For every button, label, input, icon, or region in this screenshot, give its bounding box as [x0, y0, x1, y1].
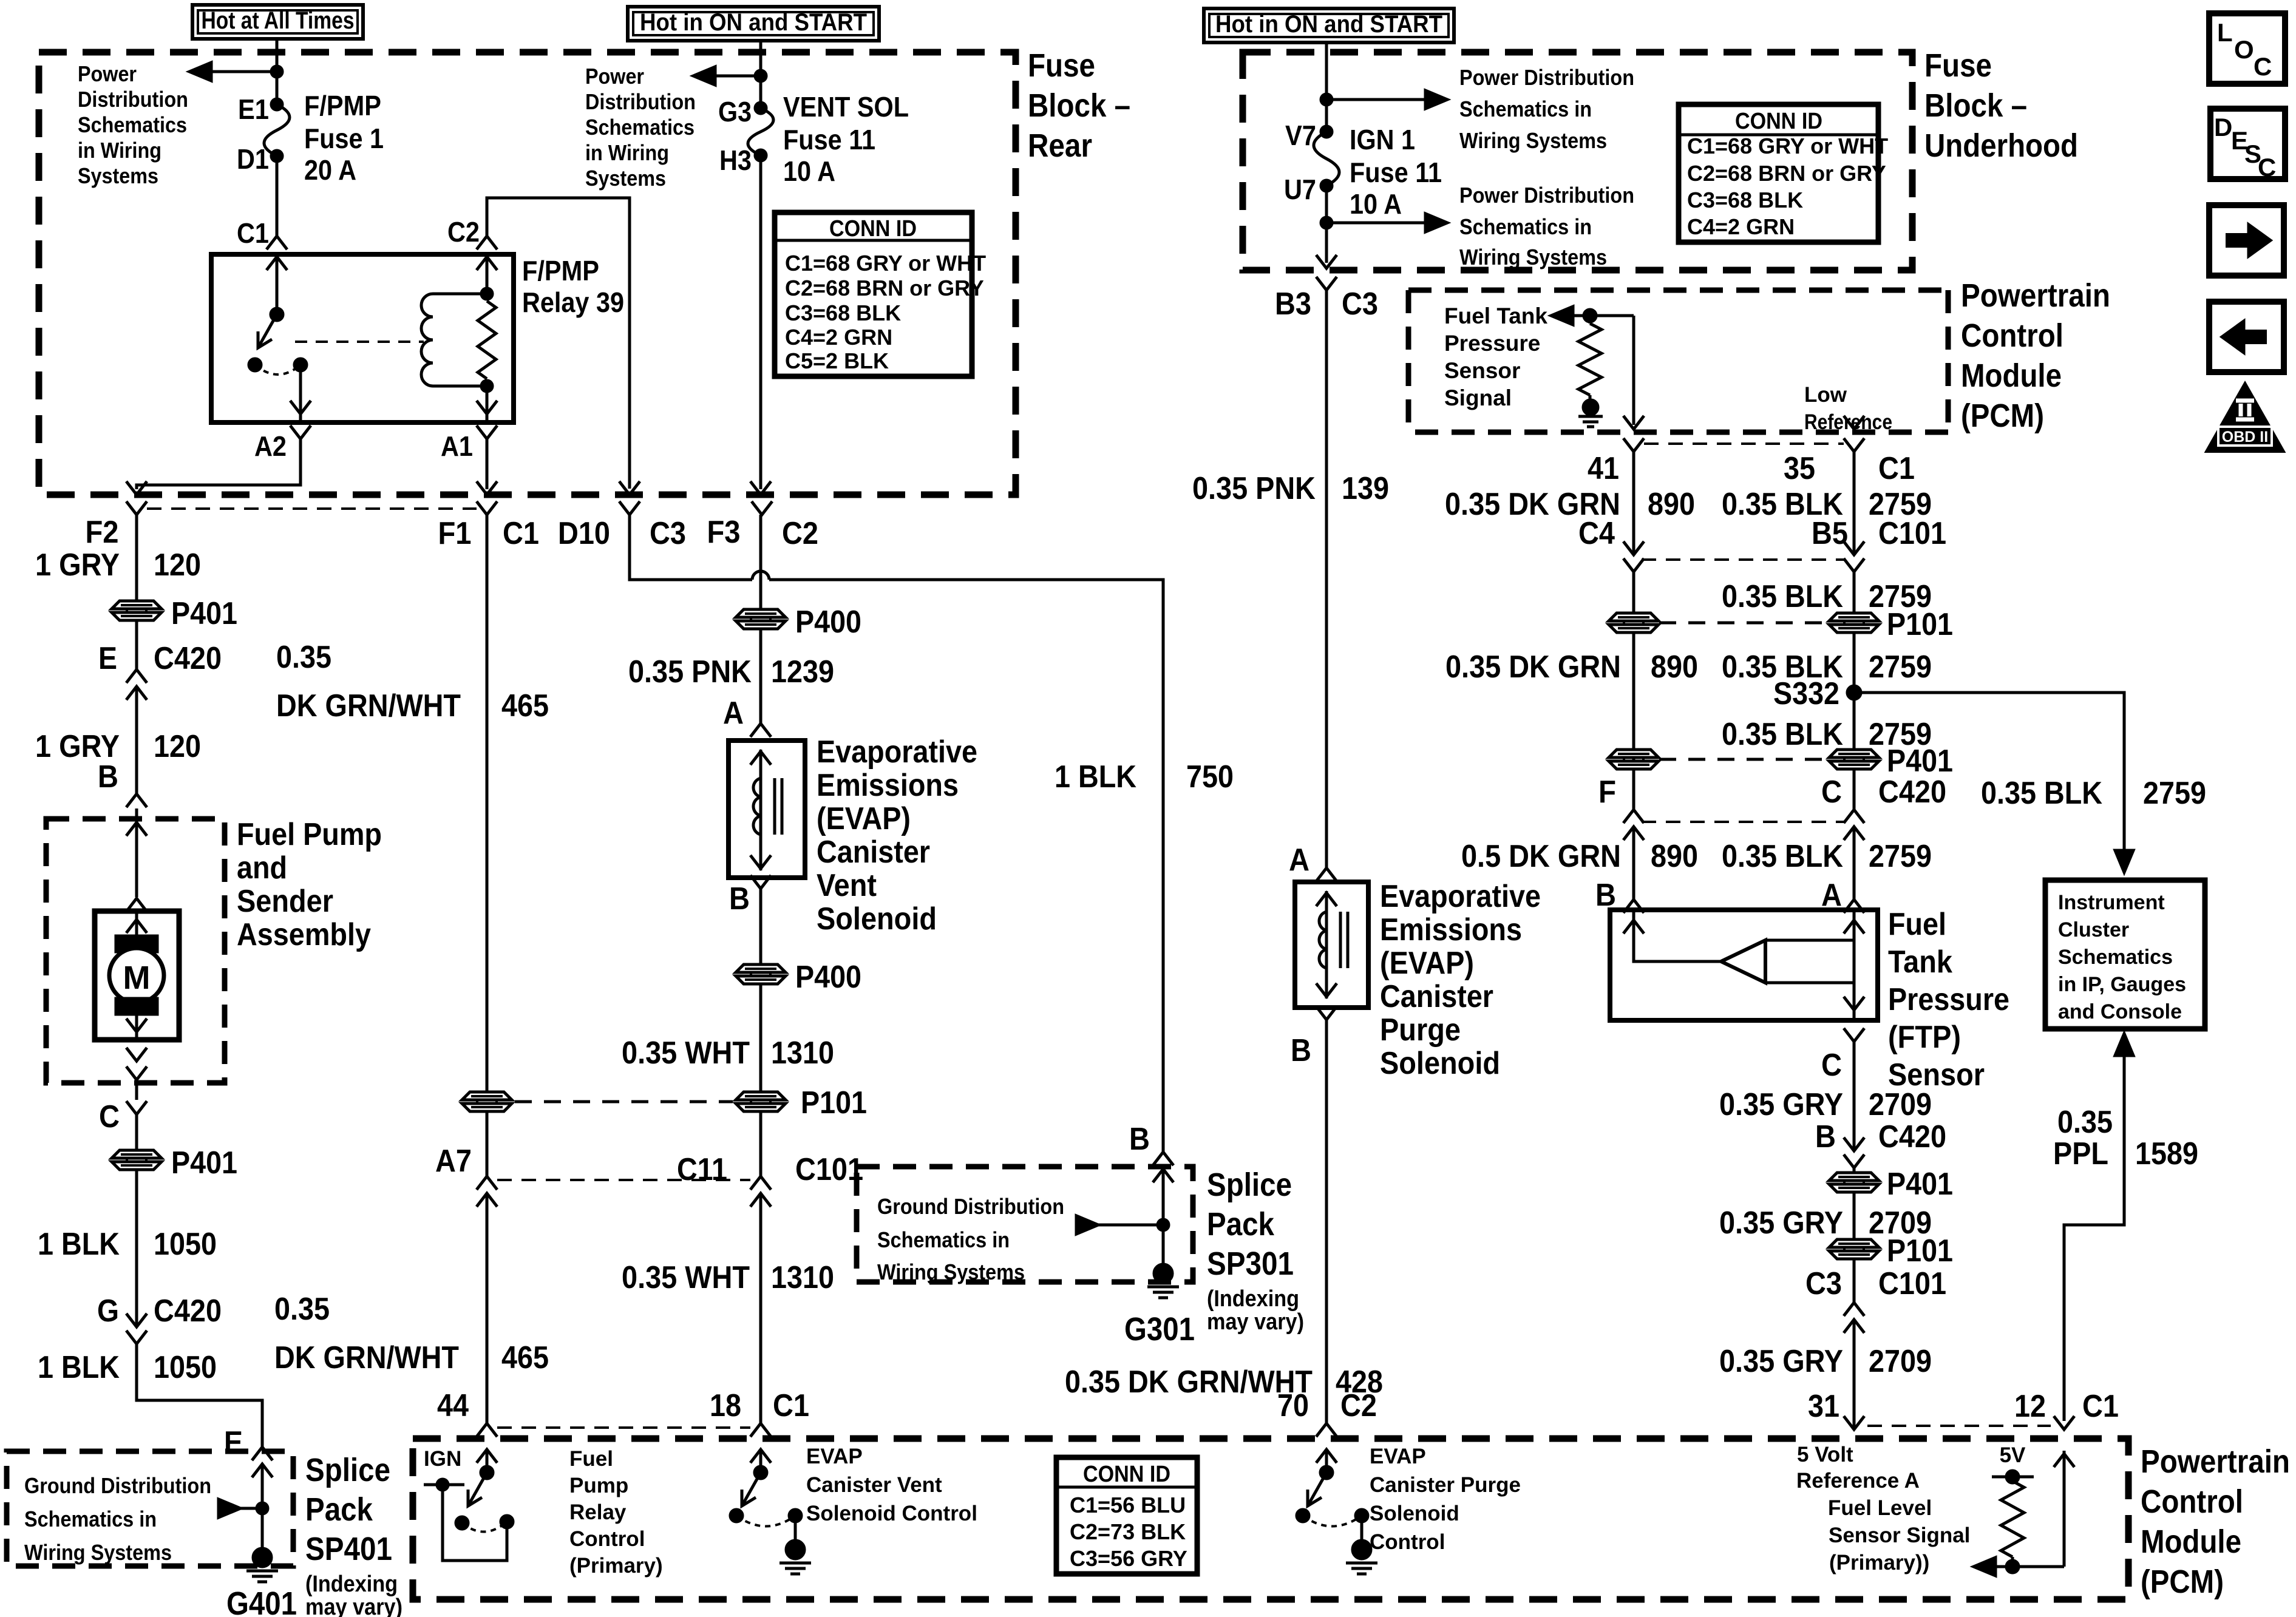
- wire relay C2 to D10 column: [487, 198, 630, 489]
- wire assembly exit C: [99, 1080, 147, 1151]
- svg-text:C2=68 BRN or GRY: C2=68 BRN or GRY: [1687, 161, 1886, 186]
- label 0.35 BLK 2759 row1: [1722, 487, 1932, 522]
- thin dashed link 44-18: [497, 1426, 750, 1429]
- svg-text:1 GRY: 1 GRY: [35, 547, 120, 583]
- svg-text:1 BLK: 1 BLK: [38, 1350, 120, 1385]
- connector B3 C3: [1275, 277, 1378, 322]
- svg-text:120: 120: [154, 547, 201, 583]
- connector pin A vent solenoid: [723, 696, 771, 737]
- svg-text:Splice: Splice: [1207, 1167, 1292, 1203]
- label Powertrain Control Module (PCM) bottom: [2141, 1443, 2290, 1600]
- wire pin 70 into PCM: [1316, 1449, 1337, 1473]
- svg-text:Distribution: Distribution: [78, 87, 188, 112]
- svg-text:139: 139: [1342, 471, 1389, 506]
- label 0.35 GRY 2709 row2: [1719, 1205, 1932, 1241]
- wire A2 to F2: [126, 439, 301, 495]
- svg-text:Control: Control: [1370, 1530, 1445, 1554]
- svg-text:Instrument: Instrument: [2058, 891, 2165, 914]
- svg-text:C3=68 BLK: C3=68 BLK: [1687, 188, 1803, 212]
- svg-text:(PCM): (PCM): [1961, 398, 2044, 434]
- resistor 5V pullup: [1992, 1471, 2034, 1573]
- icon LOC: [2209, 13, 2285, 84]
- label 0.35 BLK 2759 branch: [1981, 776, 2206, 811]
- svg-text:Hot in ON and START: Hot in ON and START: [1215, 11, 1442, 38]
- svg-text:Wiring Systems: Wiring Systems: [1459, 128, 1607, 153]
- label 0.35 PNK 1239: [628, 654, 834, 690]
- note power distribution schematics (left): [78, 61, 188, 188]
- wire from Hot in ON and START: [759, 41, 763, 108]
- wire W6 F to B: [1632, 768, 1635, 900]
- svg-text:C: C: [99, 1099, 120, 1134]
- label Splice Pack SP401: [305, 1452, 402, 1617]
- thin dashed link F-C: [1642, 821, 1844, 823]
- wire W6 P101 to F: [1632, 632, 1635, 810]
- svg-text:Sensor: Sensor: [1444, 358, 1520, 383]
- label 0.35 BLK 2759 row3: [1722, 649, 1932, 685]
- node junction power distribution lower: [1321, 214, 1447, 232]
- svg-text:Ground Distribution: Ground Distribution: [877, 1194, 1064, 1219]
- connector pin A purge solenoid: [1289, 842, 1337, 881]
- wire W7 P101 to S332: [1853, 632, 1856, 693]
- header Hot at All Times: [192, 5, 363, 39]
- svg-text:IGN: IGN: [424, 1447, 461, 1471]
- svg-text:C1=68 GRY or WHT: C1=68 GRY or WHT: [785, 251, 986, 276]
- svg-text:A2: A2: [254, 430, 287, 462]
- svg-text:1050: 1050: [154, 1227, 217, 1262]
- connector pin 35 C1 fork: [1784, 438, 1915, 486]
- svg-text:Pump: Pump: [569, 1474, 628, 1497]
- svg-text:C1: C1: [2082, 1389, 2119, 1424]
- svg-text:C101: C101: [795, 1152, 863, 1187]
- svg-text:D10: D10: [558, 516, 610, 551]
- wire into FTP box: [0, 0, 2, 2]
- node junction to power distribution: [189, 63, 282, 81]
- svg-text:Hot in ON and START: Hot in ON and START: [640, 9, 867, 36]
- svg-text:C1: C1: [503, 516, 539, 551]
- pin A2 relay: [254, 425, 311, 462]
- svg-text:10 A: 10 A: [1350, 188, 1402, 220]
- svg-text:OBD II: OBD II: [2222, 429, 2268, 446]
- thin dashed link C4-B5: [1642, 558, 1844, 561]
- svg-text:(PCM): (PCM): [2141, 1564, 2224, 1600]
- svg-text:may vary): may vary): [305, 1595, 402, 1617]
- svg-text:Fuse: Fuse: [1028, 47, 1095, 84]
- svg-text:B: B: [729, 881, 750, 917]
- wire C to C420-B: [1853, 1042, 1856, 1151]
- label Low Reference: [1804, 383, 1892, 434]
- svg-text:Wiring Systems: Wiring Systems: [24, 1540, 172, 1565]
- connector pin B vent solenoid: [729, 875, 771, 917]
- svg-text:35: 35: [1784, 451, 1815, 486]
- svg-text:Low: Low: [1804, 383, 1847, 407]
- svg-text:C420: C420: [1878, 1119, 1946, 1154]
- label 0.35 BLK 2759 row4: [1722, 717, 1932, 752]
- label 0.35 DK GRN/WHT 465 (upper): [276, 640, 549, 724]
- switch EVAP purge solenoid control: [1297, 1466, 1368, 1541]
- svg-text:C101: C101: [1878, 1266, 1946, 1301]
- svg-text:SP401: SP401: [305, 1531, 392, 1567]
- svg-text:20 A: 20 A: [304, 154, 356, 186]
- svg-text:VENT SOL: VENT SOL: [783, 91, 909, 123]
- svg-text:C4: C4: [1578, 516, 1615, 551]
- pin C1 relay: [237, 156, 287, 314]
- EVAP canister purge solenoid: [1295, 882, 1368, 1008]
- svg-text:E: E: [98, 641, 117, 676]
- svg-text:465: 465: [501, 1340, 549, 1375]
- svg-text:F/PMP: F/PMP: [304, 90, 381, 121]
- connector P101 grommet (W7): [1829, 607, 1953, 642]
- svg-text:Solenoid: Solenoid: [817, 901, 937, 937]
- svg-text:2759: 2759: [2143, 776, 2206, 811]
- svg-text:Canister Vent: Canister Vent: [806, 1473, 942, 1497]
- note power distribution schematics (upper right): [1459, 65, 1634, 153]
- label 0.35 DK GRN 890 row1: [1445, 487, 1695, 522]
- label 1 BLK 1050 (lower): [38, 1350, 217, 1385]
- svg-text:Powertrain: Powertrain: [2141, 1443, 2290, 1480]
- connector C420 pin B: [1815, 1119, 1946, 1168]
- connector F1 C1: [438, 501, 540, 551]
- wire junction to pin 41: [1623, 316, 1644, 429]
- node SP301 splice: [1076, 1216, 1169, 1234]
- svg-text:12: 12: [2014, 1389, 2046, 1424]
- wire purge B to pin 70: [1325, 1020, 1328, 1423]
- label Fuel Pump Relay Control (Primary): [569, 1447, 663, 1578]
- svg-text:2759: 2759: [1869, 839, 1932, 874]
- svg-text:and: and: [237, 850, 287, 886]
- label 0.35 DK GRN/WHT 428: [1065, 1364, 1383, 1400]
- label EVAP Canister Purge Solenoid Control: [1370, 1445, 1521, 1554]
- svg-text:0.35 DK GRN/WHT: 0.35 DK GRN/WHT: [1065, 1364, 1313, 1400]
- svg-text:C1=68 GRY or WHT: C1=68 GRY or WHT: [1687, 134, 1888, 158]
- svg-text:P101: P101: [801, 1085, 867, 1120]
- svg-text:0.35 GRY: 0.35 GRY: [1719, 1205, 1843, 1241]
- svg-text:(EVAP): (EVAP): [817, 801, 911, 836]
- svg-text:0.35 WHT: 0.35 WHT: [622, 1036, 750, 1071]
- svg-text:P400: P400: [795, 605, 861, 640]
- svg-text:P401: P401: [1887, 744, 1953, 779]
- wire fuel level sensor signal: [1974, 1558, 2064, 1576]
- svg-text:1239: 1239: [771, 654, 834, 690]
- connector B5 C101: [1812, 516, 1946, 572]
- svg-text:0.35 DK GRN: 0.35 DK GRN: [1445, 649, 1621, 685]
- note ground distribution schematics (SP401): [24, 1473, 211, 1565]
- label 0.35 GRY 2709 row1: [1719, 1087, 1932, 1122]
- svg-text:C5=2 BLK: C5=2 BLK: [785, 348, 889, 373]
- svg-text:0.5 DK GRN: 0.5 DK GRN: [1461, 839, 1621, 874]
- dashed link P101 row: [515, 1100, 733, 1103]
- svg-text:1589: 1589: [2135, 1136, 2198, 1171]
- wire C11 to pin 18: [759, 1193, 763, 1423]
- svg-text:Pressure: Pressure: [1444, 331, 1540, 356]
- svg-text:P101: P101: [1887, 1233, 1953, 1269]
- svg-text:Relay: Relay: [569, 1500, 627, 1524]
- svg-text:Canister: Canister: [1380, 979, 1493, 1014]
- wire P101 to C101-C3: [1853, 1258, 1856, 1303]
- pin A1 relay: [441, 425, 497, 462]
- icon DESC: [2210, 109, 2285, 181]
- conn id table fuse block rear: [775, 212, 986, 376]
- svg-text:C1: C1: [237, 217, 269, 249]
- svg-text:PPL: PPL: [2053, 1136, 2108, 1171]
- svg-text:CONN ID: CONN ID: [1735, 109, 1822, 134]
- label Fuel Pump and Sender Assembly: [237, 817, 382, 952]
- svg-text:Emissions: Emissions: [817, 768, 959, 803]
- svg-text:B: B: [98, 759, 118, 795]
- svg-text:Distribution: Distribution: [585, 89, 696, 114]
- note power distribution schematics (lower right): [1459, 183, 1634, 269]
- svg-text:(EVAP): (EVAP): [1380, 946, 1474, 981]
- wire A7 to pin 44: [486, 1193, 489, 1423]
- label 5V: [2000, 1443, 2026, 1467]
- relay switch-coil link dashed: [295, 341, 424, 343]
- label 1 BLK 750: [1055, 759, 1234, 795]
- dashed link P401 row: [1659, 758, 1826, 761]
- svg-text:Rear: Rear: [1028, 127, 1092, 164]
- wire P400 to pin A vent solenoid: [759, 628, 763, 724]
- FTP internal wire B: [1623, 910, 1721, 961]
- label 1 GRY 120 (lower): [35, 729, 201, 764]
- label 0.35 WHT 1310 (lower): [622, 1260, 834, 1295]
- note power distribution schematics (mid): [585, 64, 696, 191]
- svg-text:0.35 GRY: 0.35 GRY: [1719, 1344, 1843, 1379]
- svg-text:Block –: Block –: [1924, 87, 2027, 124]
- svg-text:Module: Module: [1961, 358, 2062, 394]
- svg-text:in Wiring: in Wiring: [78, 138, 161, 163]
- instrument cluster box: [2045, 880, 2205, 1029]
- fuel pump assembly dashed box: [46, 819, 225, 1083]
- svg-text:1 BLK: 1 BLK: [38, 1227, 120, 1262]
- svg-text:Purge: Purge: [1380, 1012, 1461, 1048]
- svg-text:1050: 1050: [154, 1350, 217, 1385]
- svg-text:44: 44: [437, 1388, 469, 1423]
- connector pin B purge solenoid: [1291, 1006, 1337, 1068]
- wire from Hot at All Times: [276, 39, 279, 104]
- fuse VENT SOL Fuse 11 10 A: [718, 91, 909, 187]
- fuse block underhood dashed box: [1243, 52, 1912, 270]
- label Fuse Block - Underhood: [1924, 47, 2078, 164]
- svg-text:C: C: [1821, 775, 1842, 810]
- svg-text:2709: 2709: [1869, 1087, 1932, 1122]
- node junction to power distribution 2: [693, 67, 766, 85]
- svg-text:Fuse 1: Fuse 1: [304, 123, 384, 154]
- relay coil: [421, 294, 487, 386]
- svg-text:2759: 2759: [1869, 649, 1932, 685]
- wire D10 boundary arrow: [619, 481, 640, 495]
- thin dashed link A7-C11: [497, 1179, 750, 1181]
- wire C420-G to SP401: [137, 1344, 262, 1447]
- svg-text:18: 18: [710, 1388, 741, 1423]
- svg-text:Fuel Pump: Fuel Pump: [237, 817, 382, 852]
- svg-text:Fuel: Fuel: [1888, 907, 1946, 942]
- svg-text:A: A: [723, 696, 744, 731]
- svg-text:C420: C420: [1878, 775, 1946, 810]
- svg-text:Tank: Tank: [1888, 944, 1952, 980]
- svg-text:Sensor Signal: Sensor Signal: [1829, 1524, 1970, 1547]
- svg-text:Solenoid: Solenoid: [1380, 1046, 1500, 1081]
- svg-text:Fuel Level: Fuel Level: [1828, 1496, 1932, 1520]
- svg-text:750: 750: [1186, 759, 1234, 795]
- svg-text:Pressure: Pressure: [1888, 982, 2009, 1017]
- svg-text:CONN ID: CONN ID: [1083, 1462, 1170, 1487]
- svg-text:Fuel: Fuel: [569, 1447, 613, 1471]
- svg-text:F: F: [1598, 775, 1616, 810]
- label 0.35 GRY 2709 row3: [1719, 1344, 1932, 1379]
- svg-text:S332: S332: [1773, 676, 1839, 711]
- svg-text:P101: P101: [1887, 607, 1953, 642]
- icon OBD II triangle: [2206, 383, 2284, 452]
- svg-text:O: O: [2234, 35, 2254, 64]
- svg-text:2709: 2709: [1869, 1344, 1932, 1379]
- label Powertrain Control Module (PCM) upper: [1961, 277, 2110, 434]
- svg-text:B: B: [1129, 1122, 1150, 1157]
- wire P401 to P101: [1853, 1192, 1856, 1240]
- connector pin C FTP: [1821, 1028, 1864, 1083]
- wire P400 to P101: [759, 983, 763, 1093]
- svg-text:Assembly: Assembly: [237, 917, 371, 952]
- dashed link P101 row2: [1659, 622, 1826, 625]
- svg-text:D: D: [2214, 113, 2232, 141]
- connector to motor: [126, 898, 147, 912]
- node SP401 splice: [219, 1499, 268, 1517]
- svg-text:0.35 WHT: 0.35 WHT: [622, 1260, 750, 1295]
- svg-text:A1: A1: [441, 430, 473, 462]
- svg-text:Schematics in: Schematics in: [877, 1227, 1010, 1252]
- svg-text:0.35 PNK: 0.35 PNK: [1192, 471, 1316, 506]
- svg-text:Splice: Splice: [305, 1452, 390, 1488]
- svg-text:E: E: [224, 1425, 243, 1460]
- ground G401: [226, 1548, 297, 1617]
- wire fuse to boundary: [1316, 186, 1337, 268]
- connector F: [1598, 775, 1644, 840]
- svg-text:Schematics in: Schematics in: [1459, 214, 1592, 239]
- FTP sensor box: [1610, 910, 1878, 1020]
- svg-text:890: 890: [1651, 649, 1698, 685]
- svg-text:C3: C3: [1805, 1266, 1842, 1301]
- svg-text:31: 31: [1808, 1389, 1839, 1424]
- wire P101 to A7: [486, 1111, 489, 1176]
- svg-text:M: M: [123, 960, 151, 996]
- PCM upper dashed box: [1408, 290, 1948, 432]
- svg-text:Ground Distribution: Ground Distribution: [24, 1473, 211, 1498]
- wire P401 to C420-E: [135, 620, 138, 670]
- wire from Hot in ON and START underhood: [1325, 42, 1328, 132]
- switch fuel pump relay control: [424, 1466, 513, 1561]
- svg-text:0.35: 0.35: [2057, 1105, 2113, 1140]
- label 5 Volt Reference A: [1796, 1443, 1920, 1493]
- node junction power distribution upper: [1321, 90, 1447, 109]
- label 1 GRY 120 (upper): [35, 547, 201, 583]
- svg-text:Fuse 11: Fuse 11: [783, 124, 875, 155]
- svg-text:F1: F1: [438, 516, 472, 551]
- svg-text:Control: Control: [1961, 317, 2063, 354]
- svg-text:Pack: Pack: [1207, 1206, 1275, 1242]
- wire P401 to C420-G: [135, 1169, 138, 1327]
- svg-text:70: 70: [1277, 1388, 1309, 1423]
- EVAP canister vent solenoid: [729, 741, 805, 878]
- svg-text:C420: C420: [154, 1293, 222, 1329]
- svg-text:IGN 1: IGN 1: [1350, 124, 1415, 155]
- svg-text:5 Volt: 5 Volt: [1797, 1443, 1853, 1466]
- icon arrow right: [2209, 205, 2284, 276]
- svg-text:and Console: and Console: [2058, 1000, 2182, 1023]
- svg-text:Vent: Vent: [817, 868, 877, 903]
- svg-text:P401: P401: [171, 1145, 237, 1181]
- fuse F/PMP Fuse 1 20 A: [237, 90, 384, 186]
- connector F3 C2: [707, 501, 819, 551]
- wire fuse to F3: [750, 155, 771, 495]
- connector P101 grommet (W2): [462, 1092, 512, 1111]
- svg-text:in IP, Gauges: in IP, Gauges: [2058, 973, 2186, 996]
- svg-text:P401: P401: [171, 596, 237, 631]
- svg-text:C2: C2: [447, 216, 480, 248]
- svg-text:Cluster: Cluster: [2058, 918, 2129, 941]
- PCM bottom dashed box: [413, 1439, 2128, 1599]
- thin dashed link 31-12: [1867, 1425, 2051, 1427]
- connector C11 C101: [677, 1152, 863, 1207]
- label 0.35 DK GRN 890 row2: [1445, 649, 1698, 685]
- wire F2 to P401: [135, 515, 138, 602]
- svg-text:1 BLK: 1 BLK: [1055, 759, 1136, 795]
- svg-text:Signal: Signal: [1444, 385, 1512, 410]
- svg-text:DK GRN/WHT: DK GRN/WHT: [274, 1340, 459, 1375]
- connector pin 44: [437, 1388, 497, 1437]
- svg-text:Emissions: Emissions: [1380, 912, 1522, 947]
- node S332: [1773, 676, 1861, 711]
- connector motor out: [126, 1048, 147, 1080]
- wire into SP301: [1162, 1169, 1165, 1264]
- label IGN: [424, 1447, 461, 1471]
- connector pin 70 C2: [1277, 1388, 1377, 1437]
- wire B3 to purge solenoid A: [1325, 290, 1328, 868]
- svg-text:Schematics in: Schematics in: [24, 1507, 157, 1531]
- svg-text:P401: P401: [1887, 1167, 1953, 1202]
- svg-text:465: 465: [501, 688, 549, 724]
- svg-text:Schematics: Schematics: [2058, 946, 2173, 969]
- svg-text:C101: C101: [1878, 516, 1946, 551]
- svg-text:Block –: Block –: [1028, 87, 1130, 124]
- ground G301: [1124, 1264, 1195, 1347]
- svg-text:0.35 BLK: 0.35 BLK: [1722, 839, 1843, 874]
- connector pin E SP401: [224, 1425, 273, 1477]
- svg-text:Pack: Pack: [305, 1491, 373, 1528]
- connector P401 grommet (left lower): [112, 1145, 237, 1181]
- wire A1 to F1: [477, 439, 497, 495]
- connector F2: [86, 501, 148, 550]
- connector pin 41 fork: [1588, 438, 1644, 486]
- wire D10 to SP301 (1 BLK 750): [630, 515, 1163, 1152]
- svg-text:Schematics: Schematics: [78, 112, 187, 137]
- svg-text:Reference A: Reference A: [1796, 1469, 1920, 1493]
- svg-text:1310: 1310: [771, 1036, 834, 1071]
- icon arrow left: [2209, 302, 2284, 372]
- wire W7 S332 to P401: [1853, 693, 1856, 750]
- wire pin B to P400: [759, 889, 763, 965]
- svg-text:Fuel Tank: Fuel Tank: [1444, 303, 1547, 328]
- svg-text:may vary): may vary): [1207, 1309, 1304, 1335]
- connector pin 31: [1808, 1389, 1864, 1429]
- svg-text:0.35 BLK: 0.35 BLK: [1722, 579, 1843, 614]
- connector P101 grommet (W6): [1609, 613, 1659, 632]
- FTP amplifier triangle: [1721, 940, 1765, 983]
- svg-text:C1=56 BLU: C1=56 BLU: [1070, 1493, 1186, 1517]
- label 0.35 DK GRN/WHT 465 (relay output): [274, 1292, 549, 1375]
- svg-text:C3=68 BLK: C3=68 BLK: [785, 300, 901, 325]
- svg-text:E1: E1: [238, 93, 269, 125]
- connector C420 pin E: [98, 641, 222, 700]
- svg-text:Solenoid: Solenoid: [1370, 1502, 1459, 1525]
- label Fuel Tank Pressure Sensor Signal: [1444, 303, 1547, 410]
- svg-text:(Primary)): (Primary)): [1829, 1551, 1929, 1575]
